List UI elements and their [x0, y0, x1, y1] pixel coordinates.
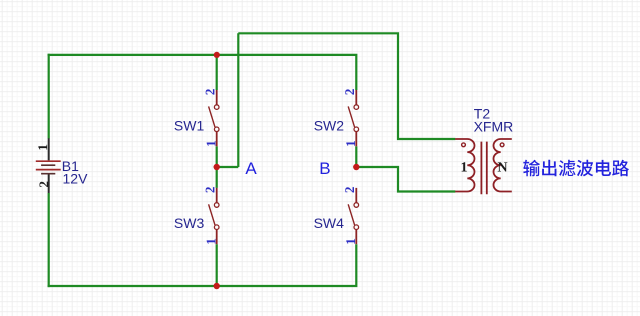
- T2 pin name 1: [462, 162, 467, 171]
- switch SW1: [209, 90, 219, 146]
- switch SW2: [348, 90, 358, 146]
- node A junction: [214, 164, 220, 170]
- switch SW3: [209, 188, 219, 244]
- junction top at SW1: [214, 52, 220, 58]
- T2 pin name N: [498, 162, 508, 171]
- wire SW3 top lead: [216, 167, 218, 188]
- wire SW1 bottom to node A: [216, 146, 218, 167]
- battery pin 2: [39, 182, 48, 187]
- wire node A stub: [217, 166, 239, 168]
- svg-text:SW1: SW1: [174, 117, 205, 133]
- battery B1: [36, 138, 61, 193]
- svg-text:XFMR: XFMR: [474, 119, 514, 135]
- svg-text:SW4: SW4: [314, 215, 345, 231]
- wire SW1 top lead: [216, 55, 218, 90]
- battery pin 1: [38, 145, 47, 150]
- svg-text:SW3: SW3: [174, 215, 205, 231]
- wire SW2 bottom to node B: [355, 146, 357, 167]
- svg-text:A: A: [245, 159, 257, 178]
- SW3 pin 2: [206, 187, 215, 192]
- node B junction: [353, 164, 359, 170]
- wire bottom bus: [48, 244, 357, 286]
- SW4 pin 1: [346, 239, 355, 244]
- junction bottom at SW3: [214, 283, 220, 289]
- SW2 pin 1: [346, 141, 355, 146]
- svg-text:12V: 12V: [63, 171, 89, 187]
- svg-text:SW2: SW2: [314, 117, 345, 133]
- SW1 pin 2: [206, 89, 215, 94]
- wire top bus from battery to SW2: [48, 55, 357, 90]
- wire top link to transformer: [238, 33, 455, 139]
- switch SW4: [348, 188, 358, 244]
- SW3 pin 1: [207, 239, 216, 244]
- wire battery column top: [48, 54, 50, 139]
- annotation 输出滤波电路: [523, 160, 629, 177]
- wire SW3 bottom lead: [216, 244, 218, 286]
- SW2 pin 2: [345, 89, 354, 94]
- SW1 pin 1: [207, 141, 216, 146]
- wire node B to transformer: [356, 167, 455, 192]
- svg-text:B: B: [319, 159, 330, 178]
- SW4 pin 2: [345, 187, 354, 192]
- wire battery column bottom: [48, 193, 50, 287]
- wire riser A to top: [237, 33, 239, 167]
- transformer T2: [455, 139, 512, 194]
